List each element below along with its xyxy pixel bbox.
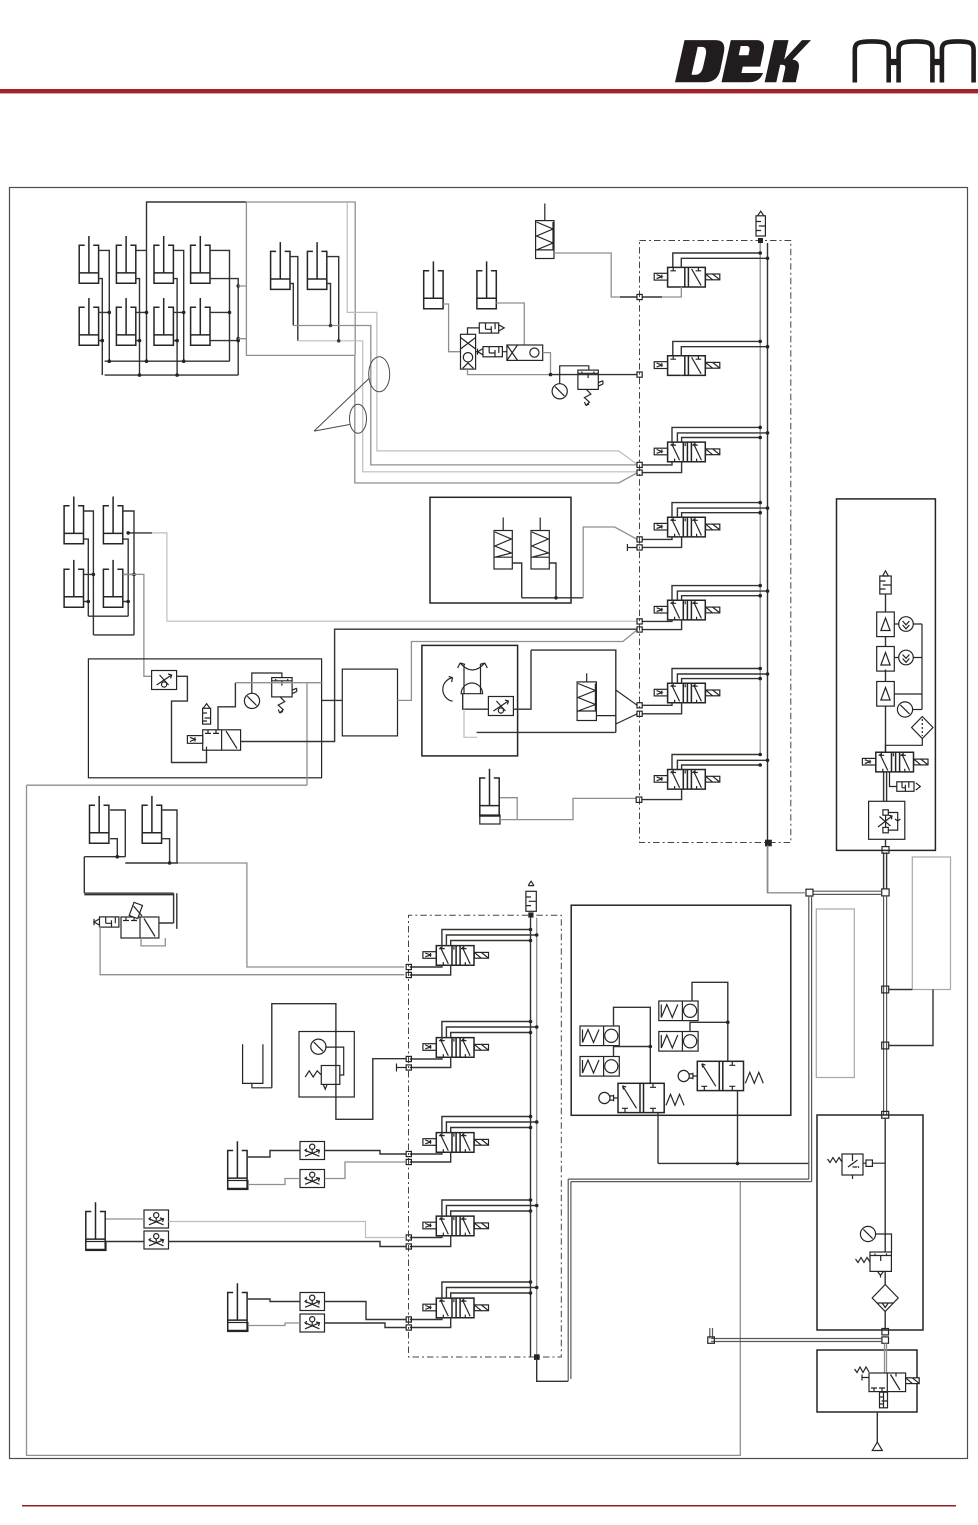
- wire grid col4 lower: [210, 279, 238, 376]
- wire D2 upper: [123, 511, 134, 635]
- main rail: [885, 594, 887, 752]
- node west: [806, 889, 813, 896]
- gray wire to island2 port: [178, 863, 404, 967]
- push button valve PB1: [599, 1083, 684, 1112]
- cylinder D3: [64, 560, 83, 607]
- gauge bracket: [876, 1234, 892, 1252]
- wire shuttle top to R1: [468, 328, 480, 334]
- valve V3: [654, 442, 720, 462]
- restrictor R2: [483, 347, 502, 357]
- rail in box: [884, 1118, 886, 1330]
- nodes below regulator box: [882, 1329, 889, 1335]
- valve W2: [423, 1038, 489, 1058]
- W1 pilot wires: [442, 930, 537, 946]
- regulator REG2: [272, 678, 297, 714]
- cylinder C2: [477, 261, 496, 308]
- ports V6: [637, 703, 642, 708]
- group junction dots: [87, 573, 136, 604]
- lever 3/2 valve LV1: [121, 902, 159, 938]
- wires F2: [162, 810, 177, 863]
- ports W1: [406, 964, 411, 969]
- node below F3: [758, 238, 763, 243]
- gauge G1: [552, 384, 567, 399]
- arrow LV: [94, 919, 100, 925]
- island1 drop to supply: [768, 845, 806, 892]
- port V7: [636, 797, 642, 802]
- wire grid col1 upper: [99, 250, 110, 361]
- cylinder A3: [154, 236, 173, 283]
- wire R2 links: [476, 351, 507, 353]
- node N1045: [882, 1042, 889, 1049]
- 3/2 solenoid valve SV: [855, 1367, 920, 1392]
- empty box output: [398, 630, 638, 701]
- island1 bus junction dots: [758, 251, 769, 767]
- W2 outputs: [410, 1057, 451, 1067]
- callout leader lines: [314, 378, 370, 431]
- gray stubs to grid: [238, 286, 246, 339]
- cylinder C1: [424, 261, 443, 308]
- W5 pilot wires: [442, 1282, 537, 1298]
- shock absorber SA1: [494, 518, 512, 570]
- header red rule: [0, 89, 978, 93]
- flow control FG4: [144, 1231, 169, 1249]
- DEK logo arches icon: [855, 41, 974, 82]
- box LB1: [88, 659, 321, 778]
- V2 output: [680, 374, 682, 377]
- wire SC2 output: [596, 715, 615, 717]
- rail with nodes down right side: [884, 896, 887, 1115]
- gray feed from D4 to left box: [123, 574, 152, 676]
- quick exhaust QE1: [507, 345, 543, 360]
- wire grid col4 upper: [210, 250, 230, 361]
- booster link wires: [894, 624, 922, 710]
- cylinder F2: [142, 796, 161, 843]
- valve W3: [423, 1133, 489, 1153]
- gauge G4: [897, 702, 912, 717]
- wire B2 upper: [327, 257, 339, 341]
- valve V1: [654, 267, 720, 287]
- flow control FG5: [300, 1293, 325, 1311]
- valve V2: [654, 356, 720, 376]
- cylinder A1: [79, 236, 98, 283]
- gray line L2: [293, 326, 637, 465]
- V4 pilot wires: [672, 503, 768, 518]
- supply double down-left path: [568, 896, 811, 1381]
- wires G1 to FG: [248, 1151, 300, 1158]
- wire grid col2 lower: [136, 279, 140, 376]
- valve V32a output long wire: [241, 629, 638, 741]
- heavy link down to lever valve: [84, 857, 177, 929]
- spring-return cylinder SC1: [536, 204, 554, 259]
- V6 pilot wires: [672, 669, 768, 684]
- gray elbow below rotary: [464, 709, 477, 737]
- port V1: [637, 294, 642, 299]
- V6 outputs: [642, 703, 681, 714]
- W4 outputs: [410, 1236, 451, 1247]
- wire node to tall box: [889, 989, 913, 991]
- rotary actuator symbol: [443, 663, 488, 701]
- valve V5: [654, 600, 720, 620]
- V4 outputs: [642, 537, 681, 548]
- cylinder A2: [116, 236, 135, 283]
- wire QE to junction: [543, 353, 551, 375]
- ports V3: [637, 462, 642, 467]
- cylinder G2: [86, 1202, 105, 1249]
- filter F6 below valve: [880, 1392, 888, 1408]
- node at supply tee: [882, 889, 889, 896]
- push button valve PB2: [678, 1061, 763, 1090]
- filter diamond D1: [912, 717, 933, 739]
- chamfer wires to ports V6: [616, 690, 637, 724]
- V5 outputs: [642, 620, 681, 630]
- V2 pilot wires: [673, 341, 768, 355]
- wire grid bus1: [105, 360, 230, 362]
- wire rotary to FC2: [463, 694, 489, 710]
- V1 pilot wires: [673, 253, 768, 267]
- valve V7: [654, 770, 720, 790]
- bundle junction dots: [329, 324, 341, 343]
- valve W4: [423, 1216, 489, 1236]
- wires FG to ports W3: [325, 1151, 407, 1155]
- valve V6: [654, 683, 720, 703]
- W3 pilot wires: [442, 1117, 537, 1133]
- callout ellipse 2: [350, 404, 367, 433]
- restrictor R1: [479, 323, 498, 333]
- gray line L4: [355, 355, 637, 483]
- ports W5: [406, 1317, 411, 1322]
- island2 supply link: [537, 1360, 569, 1381]
- V7 output: [642, 789, 681, 800]
- wire grid col2 upper: [136, 202, 247, 361]
- ports W3: [406, 1151, 411, 1156]
- wires SA outputs: [512, 563, 583, 598]
- wires G2 to FG: [106, 1218, 144, 1220]
- LV output gray: [100, 926, 404, 975]
- cylinder A8: [191, 298, 210, 345]
- gray line L1: [347, 202, 637, 464]
- DEK logo letter D: [675, 40, 811, 82]
- cylinder A5: [79, 298, 98, 345]
- pilot wiring left pair: [614, 1007, 651, 1083]
- bus rails island1: [759, 243, 761, 755]
- island2 bottom node: [534, 1354, 540, 1360]
- wire grid col1 lower: [99, 279, 103, 376]
- valve W1: [423, 946, 489, 966]
- cylinder D4: [103, 560, 122, 607]
- regulator REG1: [578, 370, 603, 406]
- double line west with stub: [710, 1328, 882, 1342]
- wire B1 lower: [290, 284, 293, 326]
- island2 bus junction dots: [529, 928, 539, 1295]
- pressure switch PS: [828, 1154, 886, 1179]
- gauge link: [913, 709, 922, 711]
- wire grid col3 lower: [173, 279, 177, 376]
- pilot valve P1: [580, 1026, 619, 1046]
- wire FC1 out to valve: [172, 676, 207, 762]
- ports V5: [637, 619, 642, 624]
- pilot valve P2: [580, 1057, 619, 1077]
- wire group bus H1: [88, 615, 128, 617]
- island1 bottom node: [765, 840, 772, 847]
- W4 pilot wires: [442, 1200, 537, 1216]
- filter F3 on top: [756, 211, 765, 236]
- wire C1 to shuttle: [443, 304, 460, 352]
- gray supply into LB1: [235, 682, 321, 684]
- ports V4: [637, 537, 642, 542]
- valve W5: [423, 1298, 489, 1318]
- wire valve pilot up: [218, 683, 235, 730]
- wire D1 lower: [84, 539, 89, 616]
- cylinder B2: [307, 242, 326, 289]
- booster 2: [877, 647, 895, 672]
- wire grid bus2: [105, 374, 239, 376]
- rail through FCB: [884, 839, 887, 889]
- filter F5: [880, 571, 891, 594]
- wire group bus H2: [93, 634, 134, 636]
- grid junction dots: [101, 284, 241, 377]
- V7 pilot wires: [672, 755, 768, 770]
- reservoir tank: [243, 1044, 272, 1088]
- wire diamond to valve: [886, 739, 923, 753]
- cylinder B1: [271, 242, 290, 289]
- arrow R2: [478, 349, 484, 355]
- callout ellipse 1: [369, 357, 390, 392]
- booster 3: [877, 682, 895, 707]
- wires G3 to FG: [248, 1299, 300, 1302]
- W5 outputs: [410, 1318, 451, 1328]
- W2 pilot wires: [442, 1022, 537, 1038]
- wire D1 upper: [84, 511, 94, 635]
- spring cylinder SC2: [577, 673, 596, 720]
- cylinder G1: [228, 1141, 247, 1188]
- wire shuttle bottom to port V2: [468, 369, 551, 375]
- check circle 1: [899, 617, 914, 632]
- V5 pilot wires: [672, 586, 768, 601]
- flow control box FCB: [869, 801, 905, 839]
- W1 outputs: [410, 965, 451, 975]
- gauge link: [325, 1047, 344, 1075]
- LV bypass loop: [141, 938, 165, 946]
- regulator REG3: [856, 1252, 892, 1278]
- node N989: [882, 986, 889, 993]
- stub into empty box: [322, 699, 343, 701]
- wire B1 upper: [290, 257, 298, 341]
- pilot group outline (gray rect): [246, 202, 355, 355]
- gauge G2: [244, 693, 259, 708]
- flow control FG1: [300, 1142, 325, 1160]
- gauge G6: [311, 1039, 326, 1054]
- flow control FG6: [300, 1314, 325, 1332]
- air 5/2 valve AV: [862, 752, 928, 772]
- node below F4: [528, 912, 533, 917]
- gauge G5: [860, 1226, 875, 1241]
- valve V4: [654, 517, 720, 537]
- shock absorber SA2: [531, 518, 549, 570]
- node on air box bottom: [882, 847, 889, 854]
- riser to port V4-1: [583, 527, 637, 598]
- plug at port V4-2: [627, 544, 637, 551]
- double rail below valve: [884, 772, 887, 801]
- wire node to riser: [889, 990, 933, 1046]
- wire C2 down to quick-exhaust: [496, 303, 524, 345]
- tank supply wire: [272, 1004, 406, 1120]
- pilot valve P4: [659, 1032, 698, 1052]
- supply double horizontal: [813, 891, 882, 894]
- pilot outputs down: [658, 1091, 809, 1164]
- pilot valve P3: [659, 1001, 698, 1021]
- pilot wiring right pair: [690, 982, 728, 1061]
- bottom wire of right box: [477, 731, 616, 733]
- filter F4 on top: [526, 881, 536, 911]
- wires F1: [110, 810, 125, 857]
- DEK logo letter e: [722, 40, 765, 82]
- V3 outputs: [642, 462, 681, 473]
- ports W4: [406, 1235, 411, 1240]
- flow control FC1: [152, 671, 177, 690]
- gray feed to line y621: [152, 533, 637, 621]
- cylinder F1: [90, 796, 109, 843]
- node west end: [708, 1337, 715, 1343]
- junction dot: [549, 373, 553, 377]
- gauge bracket LB1: [252, 673, 282, 693]
- cylinder A4: [191, 236, 210, 283]
- cylinder G3: [228, 1283, 247, 1330]
- wire valve to muffler: [890, 772, 897, 787]
- 3/2 valve V32a: [187, 730, 240, 750]
- wire D2 output right: [128, 532, 152, 534]
- FCB internals: [878, 810, 900, 833]
- water separator diamond D2: [872, 1285, 898, 1312]
- wires FG to ports W4: [169, 1222, 407, 1238]
- gauge+regulator bracket: [560, 366, 589, 384]
- cross links: [84, 857, 178, 863]
- cylinder A6: [116, 298, 135, 345]
- shuttle/check valve SH1: [461, 334, 476, 369]
- gray line L3: [298, 341, 637, 472]
- booster 1: [877, 612, 895, 637]
- island2 bus rails: [530, 918, 532, 1357]
- cylinder D1: [64, 497, 83, 544]
- exhaust line + triangle: [876, 1412, 878, 1442]
- port V2: [637, 372, 642, 377]
- node N1114: [882, 1111, 889, 1118]
- wire grid col3 upper: [173, 250, 183, 361]
- plug at port W2-2: [397, 1064, 407, 1072]
- muffler M1: [897, 782, 921, 792]
- flow control FC2: [488, 697, 513, 716]
- wire SC1 output to port V1: [554, 253, 620, 297]
- filter FL1: [203, 704, 211, 725]
- wire B2 lower: [327, 284, 331, 326]
- V1 output: [662, 287, 681, 297]
- cylinder A7: [154, 298, 173, 345]
- ports W2: [406, 1056, 411, 1061]
- cylinder D2: [103, 497, 122, 544]
- flow control FG2: [300, 1170, 325, 1188]
- check circle 2: [899, 650, 914, 665]
- wires FG to ports W5: [325, 1302, 407, 1320]
- DEK logo letter K: [765, 40, 811, 82]
- W3 outputs: [410, 1152, 451, 1162]
- wires E1 to port V7: [500, 798, 636, 820]
- regulator REG4: [305, 1066, 340, 1090]
- wire D2 lower: [123, 539, 128, 616]
- rail into box: [885, 1343, 887, 1373]
- footer red rule: [22, 1505, 956, 1507]
- gray drop from LB1 to bottom rail: [27, 683, 741, 1456]
- wire FC2 out up-right: [513, 650, 531, 709]
- flow control FG3: [144, 1210, 169, 1228]
- regulator enclosure: [299, 1032, 354, 1098]
- V3 pilot wires: [672, 427, 768, 442]
- arrow R1: [499, 325, 505, 331]
- restrictor LV in: [100, 917, 119, 927]
